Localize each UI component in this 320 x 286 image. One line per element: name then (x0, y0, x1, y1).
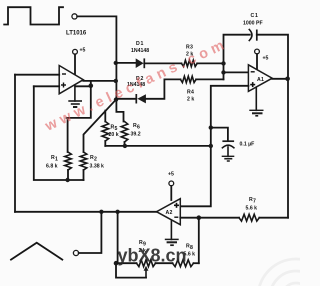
comparator +5 terminal (73, 49, 78, 54)
wire: R3 to node (197, 62, 223, 64)
triangle wave symbol (11, 243, 62, 260)
svg-text:1: 1 (255, 13, 258, 19)
wire: feedback staircase to R1 (67, 86, 91, 118)
wire: terminal to A2 output wire (79, 212, 102, 253)
svg-text:5.6 k: 5.6 k (246, 206, 258, 212)
node feedback tap (89, 83, 94, 88)
wire: to D2 (116, 98, 136, 100)
op-amp A1 (248, 65, 272, 92)
svg-text:LT1016: LT1016 (66, 31, 87, 37)
node A2 feedback junction (115, 210, 119, 214)
node R9 left junction (114, 261, 119, 266)
wire: plus input down to R1R2 bottom node (34, 86, 68, 180)
node R3 junction (221, 61, 225, 65)
wire: D2 up to R4 (146, 79, 181, 98)
svg-text:3.38 k: 3.38 k (90, 164, 105, 170)
resistor R4 (181, 76, 197, 82)
watermark corner logo (258, 259, 320, 286)
resistor R9 (pot) (137, 260, 156, 267)
svg-text:1N4148: 1N4148 (131, 48, 149, 54)
resistor R7 (239, 214, 259, 221)
svg-text:2 k: 2 k (187, 96, 194, 102)
node A2 minus junction (197, 215, 202, 220)
wire: between R9 and R8 (156, 262, 173, 264)
wire: +5 stem into A2 (170, 186, 172, 200)
wire: A1 output (272, 78, 288, 80)
svg-text:D: D (136, 41, 140, 47)
svg-text:1: 1 (55, 157, 58, 163)
resistor R8 (173, 260, 194, 267)
wire: R6 bottom lead (124, 142, 126, 146)
wire: to A1 minus input (224, 71, 249, 73)
svg-text:7: 7 (253, 199, 256, 205)
wire: +5 stem into comparator (74, 54, 76, 74)
resistor R1 (65, 152, 72, 170)
wire: ground stem branch to feedback tap (75, 85, 91, 87)
wire: left feedback vertical from A2 output (14, 75, 16, 212)
svg-text:ybX8.cn: ybX8.cn (118, 246, 187, 266)
wire: A1 plus input to x211 vertical (180, 86, 248, 207)
wire: C1 right to feedback vertical (257, 35, 288, 218)
wire: D1 to R3 (144, 62, 181, 64)
node D2 junction (114, 97, 118, 101)
wire: to D1 (116, 62, 136, 64)
svg-text:+5: +5 (80, 48, 86, 54)
svg-text:39.2: 39.2 (131, 132, 141, 138)
svg-text:6: 6 (137, 125, 140, 131)
wire: R5 bottom lead (104, 141, 106, 146)
wire: A2 output to left feedback (15, 211, 157, 213)
wire: R5 top lead tapping diagonal (104, 111, 106, 122)
svg-text:4: 4 (191, 90, 194, 96)
ground (A2) (165, 221, 179, 245)
node output junction (114, 79, 118, 83)
pot wiper arrow (144, 266, 149, 278)
triangle output terminal (73, 250, 78, 255)
op-amp A2 (points left) (157, 199, 181, 225)
wire: summing node vertical x224 (224, 35, 250, 80)
wire: R2 bottom lead (83, 170, 85, 180)
wire: A2 output feedback down (117, 212, 119, 263)
wire: terminal to comparator output vertical (77, 16, 123, 121)
ground (comparator) (68, 86, 82, 108)
wire: wiper loop to R9 left node (116, 263, 146, 277)
svg-text:1000 PF: 1000 PF (243, 21, 263, 27)
wire: R2 top lead and diagonal to D2 node (84, 100, 117, 152)
svg-text:20 k: 20 k (109, 132, 119, 138)
svg-text:8: 8 (190, 245, 193, 251)
node bottom-node junction (209, 144, 213, 148)
svg-text:+5: +5 (168, 172, 174, 178)
capacitor 0.1uF (222, 141, 234, 156)
svg-text:+5: +5 (263, 56, 269, 62)
op-amp U1 LT1016 comparator (59, 66, 83, 94)
svg-text:6.8 k: 6.8 k (46, 164, 58, 170)
wire: A2 minus input through R7 (180, 217, 239, 219)
wire: branch to 0.1uF (211, 128, 228, 141)
resistor R2 (80, 152, 87, 170)
wire: R7 to feedback vertical (259, 217, 288, 219)
node R6 bottom junction (123, 144, 127, 148)
node 0.1uF junction (209, 125, 213, 129)
wire: R1R2 bottom wire (68, 179, 84, 181)
wire: R5R6 bottom node wire to x211 (105, 145, 211, 147)
wire: comparator minus input (15, 74, 59, 76)
node: square output terminal (72, 14, 77, 19)
wire: R1 top lead (67, 118, 69, 152)
A1 +5 terminal (255, 49, 260, 54)
svg-text:0.1 µF: 0.1 µF (240, 142, 255, 148)
wire: +5 stem into A1 (256, 54, 258, 70)
wire: R8 vertical from A2 minus (198, 218, 200, 264)
node R1R2 bottom junction (65, 178, 69, 182)
wire: left end of gain network (116, 262, 137, 264)
capacitor C1 1000pF (249, 30, 256, 41)
A2 +5 terminal (169, 181, 174, 186)
wire: stub from output to feedback tap (90, 81, 92, 86)
svg-text:1: 1 (141, 41, 144, 47)
svg-text:C: C (251, 13, 255, 19)
svg-text:2: 2 (94, 157, 97, 163)
square wave symbol (4, 7, 63, 24)
diode D2 1N4148 (136, 94, 146, 104)
svg-text:1: 1 (261, 77, 264, 83)
resistor R3 (182, 60, 198, 66)
wire: bottom gain network (194, 262, 199, 264)
wire: R1 bottom lead (67, 170, 69, 180)
node triangle-output junction (99, 210, 103, 214)
ground (A1) (249, 88, 263, 116)
resistor R6 (121, 122, 128, 143)
wire: comparator plus input (34, 85, 59, 87)
wire: R4 to node vertical (196, 78, 223, 80)
resistor R5 (102, 122, 109, 142)
node A1 output junction (285, 77, 290, 82)
node A1 minus junction (221, 70, 225, 74)
diode D1 1N4148 (136, 58, 145, 68)
ground (0.1uF) (222, 156, 235, 161)
wire: comparator output (83, 80, 116, 82)
node D1 junction (114, 61, 118, 65)
svg-text:2: 2 (170, 210, 173, 216)
